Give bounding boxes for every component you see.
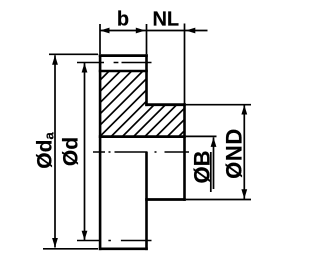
OND bottom extension line — [186, 199, 251, 201]
OND dimension line — [243, 105, 245, 200]
arrow b right — [136, 28, 146, 34]
gear outline: right wall upper (face above hub) — [145, 54, 148, 106]
arrow NL outside right — [186, 28, 196, 34]
svg-text:b: b — [117, 9, 129, 31]
OND top extension line — [186, 104, 251, 106]
arrow Oda top — [52, 55, 58, 64]
OB label underline — [210, 152, 212, 192]
hub right wall — [183, 103, 186, 201]
Oda top extension line — [49, 53, 98, 55]
arrow Oda bottom — [52, 238, 58, 248]
hub bottom edge — [145, 198, 186, 201]
OB extension line — [186, 135, 217, 137]
pitch line bottom (dash-dot), also Od extension — [77, 240, 152, 242]
Oda bottom extension line — [43, 248, 98, 250]
arrow OND top — [241, 105, 247, 115]
svg-text:ØB: ØB — [190, 151, 215, 184]
hub top edge — [145, 103, 186, 106]
gear outline: right wall lower (face below axis) — [145, 152, 148, 250]
gear outline: top tip edge — [99, 54, 148, 57]
Od dimension line — [84, 63, 86, 241]
svg-text:NL: NL — [152, 9, 179, 31]
arrow OND bottom — [241, 189, 247, 199]
Oda dimension line — [54, 55, 56, 247]
arrow OB up — [211, 137, 217, 147]
OB dimension line — [213, 137, 215, 189]
pitch line top (dash-dot), also Od extension — [77, 62, 152, 64]
svg-text:Ød: Ød — [60, 137, 83, 166]
extension line x=184.5 for NL — [184, 24, 186, 104]
gear outline: left wall — [99, 54, 102, 250]
gear outline: bottom tip edge — [99, 248, 148, 251]
top dimension line b / NL — [100, 30, 208, 32]
bore line — [99, 135, 186, 138]
arrow b left — [100, 28, 110, 34]
axis centerline (dash-dot) — [93, 151, 189, 153]
root line (top) — [99, 70, 148, 72]
arrow Od top — [82, 63, 88, 73]
extension line x=146.5 for b/NL — [146, 24, 148, 54]
arrow Od bottom — [82, 231, 88, 241]
extension line x=100 for b — [99, 24, 101, 54]
hatching of gear rim and hub section — [42, 69, 247, 139]
svg-text:ØND: ØND — [221, 128, 246, 179]
